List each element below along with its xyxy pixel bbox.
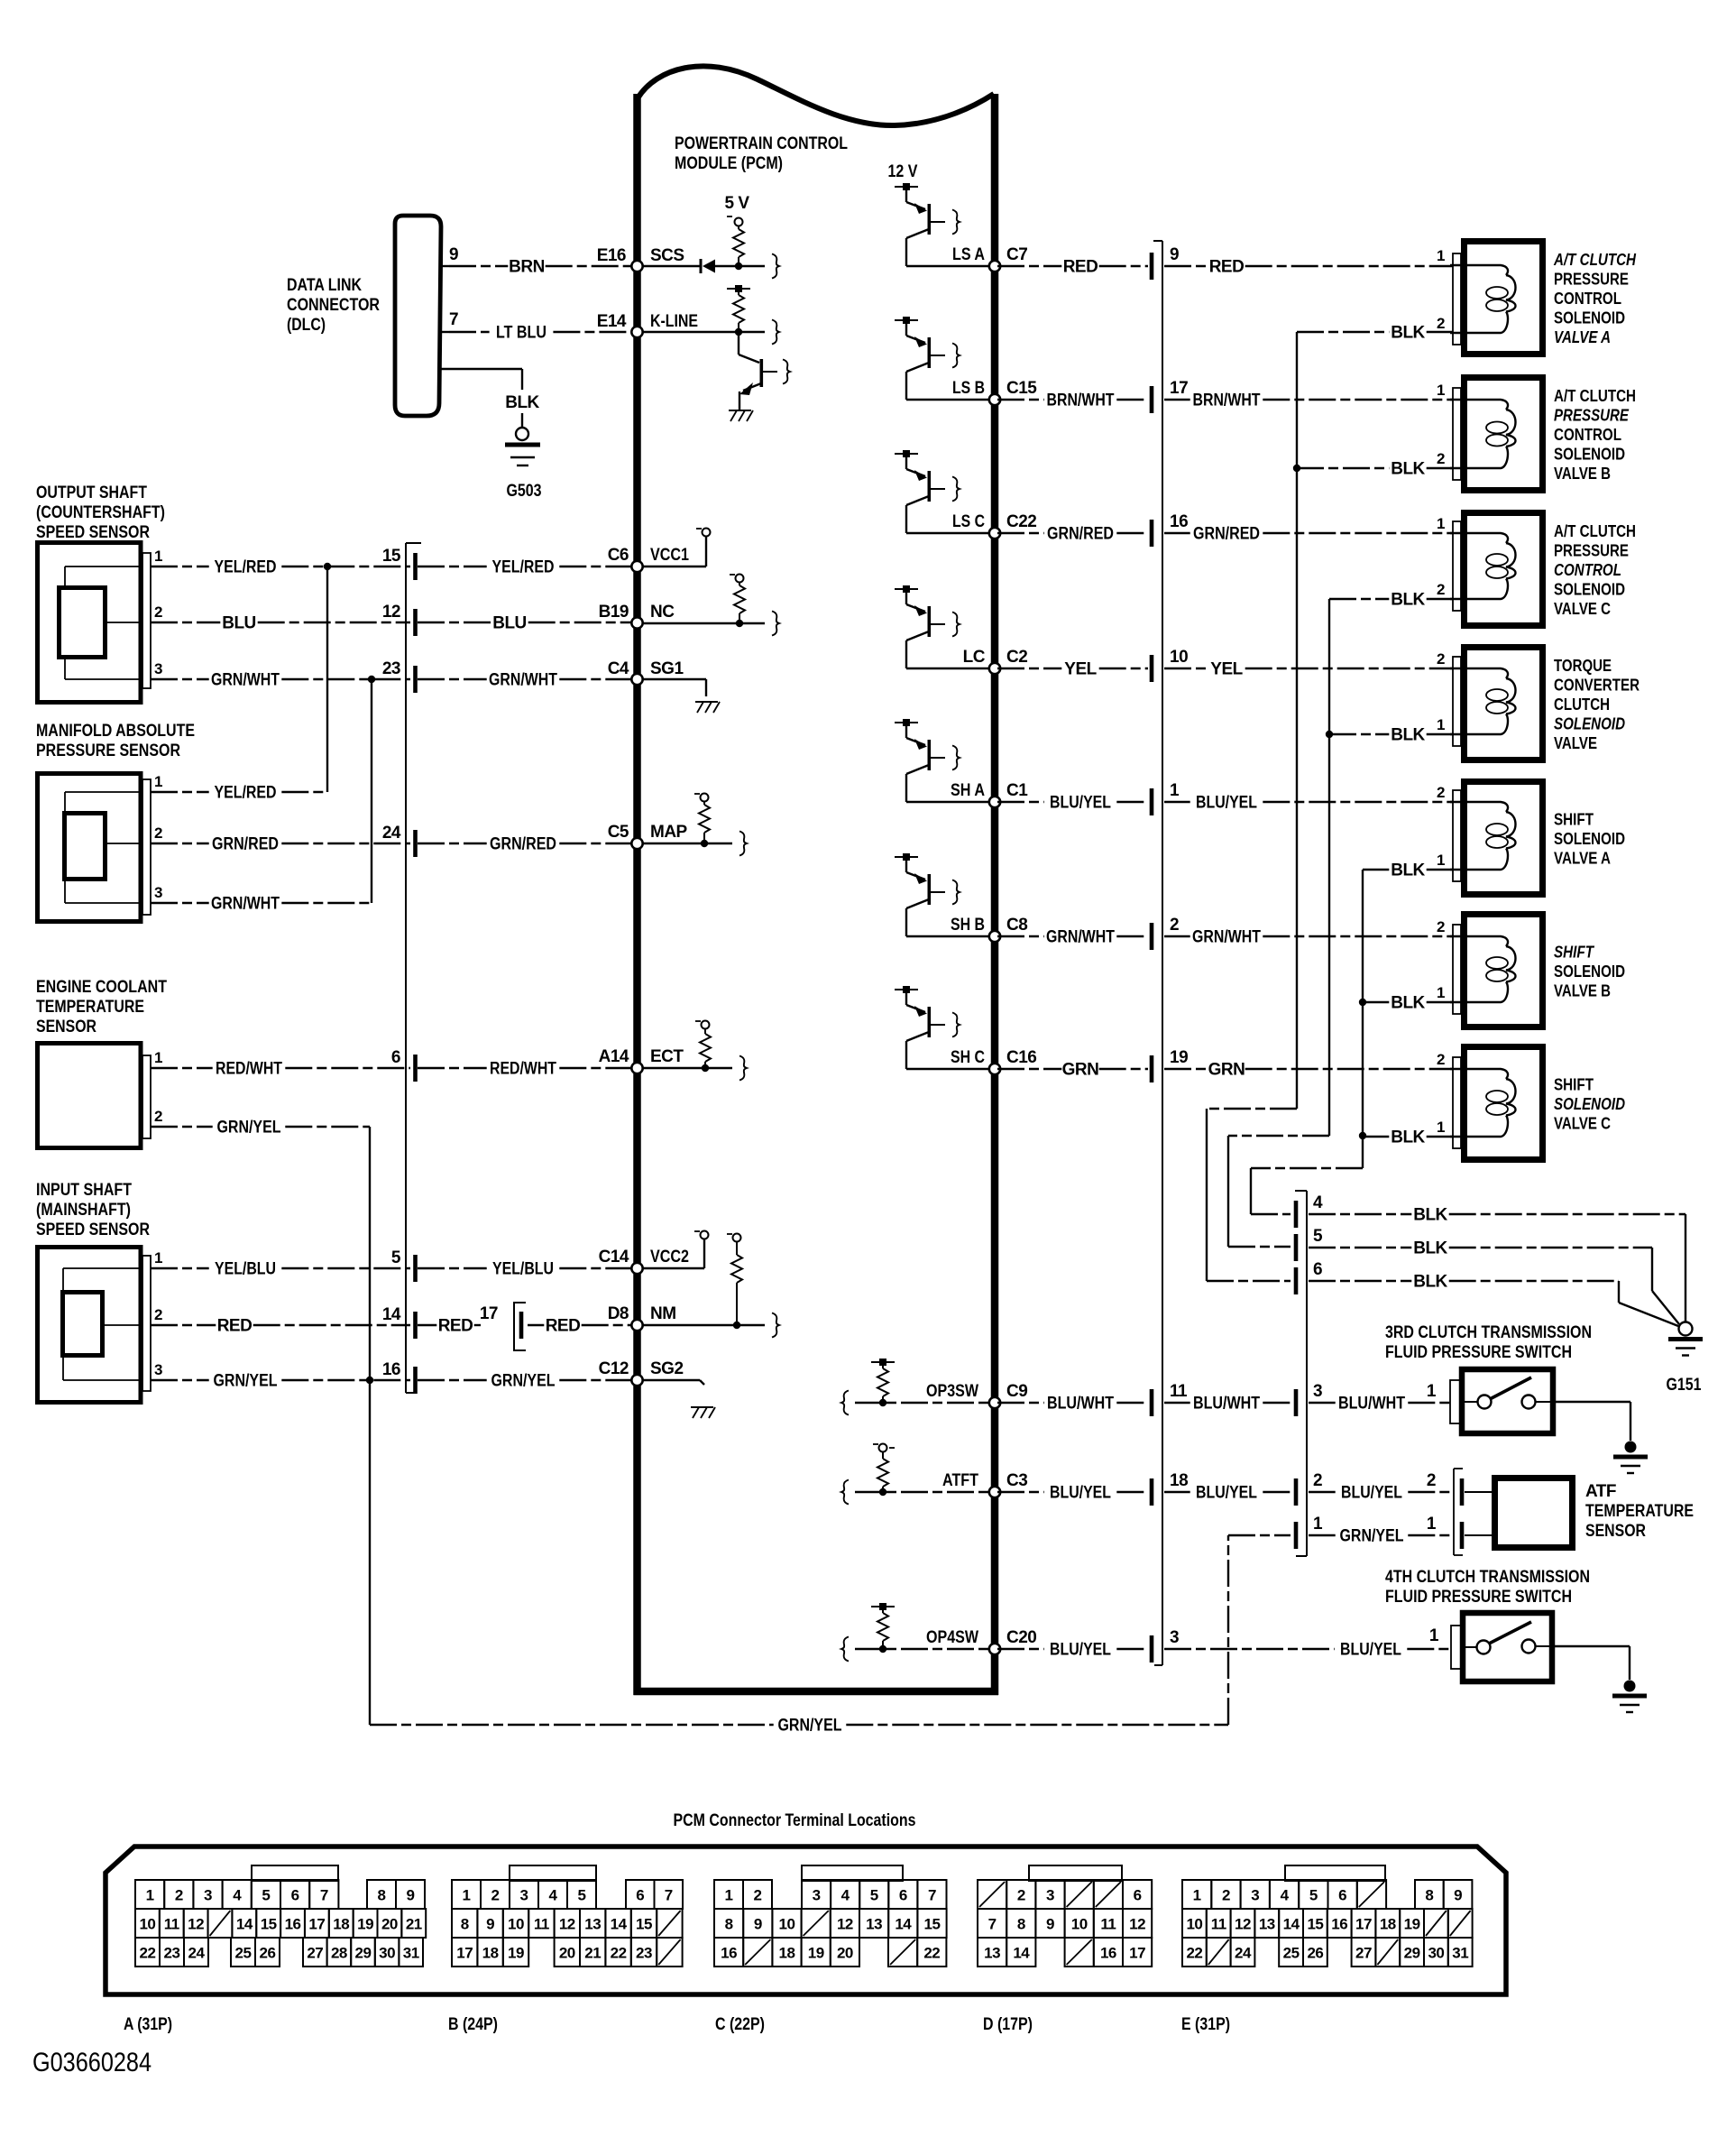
svg-text:BLU/YEL: BLU/YEL — [1050, 1484, 1111, 1503]
svg-text:3: 3 — [1046, 1887, 1054, 1904]
svg-text:LS B: LS B — [952, 379, 985, 398]
svg-text:BLU/WHT: BLU/WHT — [1193, 1395, 1260, 1414]
svg-text:2: 2 — [1437, 650, 1445, 668]
wire BLU/YEL (to ATF sensor pin2) — [1164, 1484, 1292, 1503]
svg-text:CONNECTOR: CONNECTOR — [287, 296, 380, 315]
svg-text:12: 12 — [1235, 1916, 1251, 1933]
in-line connector rail (right harness) — [1153, 241, 1162, 1665]
svg-text:30: 30 — [1428, 1945, 1444, 1962]
wire BLU/WHT (C11 left of rail) — [997, 1395, 1148, 1414]
svg-text:YEL: YEL — [1064, 660, 1097, 679]
connector pin 3 (sub-harness) — [1294, 1382, 1322, 1416]
node LC / C2 — [906, 648, 1027, 674]
wire ECT continuation — [642, 1056, 747, 1081]
switch: 4th clutch transmission fluid pressure switch — [1429, 1613, 1552, 1681]
wire BLK (shift valve C pin1) — [1363, 1128, 1453, 1147]
svg-text:2: 2 — [154, 603, 162, 621]
svg-text:(DLC): (DLC) — [287, 316, 326, 335]
svg-text:9: 9 — [407, 1887, 415, 1904]
svg-text:E (31P): E (31P) — [1181, 2015, 1230, 2034]
transistor Q6 (SH B driver) — [895, 853, 960, 936]
svg-text:G03660284: G03660284 — [32, 2048, 152, 2077]
transistor Q7 (SH C driver) — [895, 986, 960, 1069]
svg-text:PRESSURE: PRESSURE — [1554, 542, 1629, 560]
node C4 / SG1 — [608, 659, 684, 685]
wire LT BLU (DLC pin 7 to PCM E14) — [439, 324, 631, 343]
svg-text:1: 1 — [1437, 852, 1445, 869]
ground (4th switch) — [1612, 1681, 1647, 1713]
svg-text:5: 5 — [870, 1887, 878, 1904]
svg-text:GRN/RED: GRN/RED — [1193, 525, 1260, 544]
svg-text:BLU/WHT: BLU/WHT — [1338, 1395, 1405, 1414]
wire BLU/YEL (rail2 to ATF pin2) — [1309, 1471, 1452, 1503]
solenoid valve C (A/T clutch pressure control solenoid valve C) — [1437, 513, 1542, 626]
svg-text:15: 15 — [1307, 1916, 1323, 1933]
svg-text:2: 2 — [1427, 1471, 1436, 1490]
svg-text:E14: E14 — [597, 312, 627, 331]
svg-text:5 V: 5 V — [724, 194, 749, 213]
svg-text:BLK: BLK — [1391, 994, 1425, 1013]
svg-text:BRN/WHT: BRN/WHT — [1047, 391, 1115, 410]
svg-text:SHIFT: SHIFT — [1554, 1076, 1594, 1094]
switch: 3rd clutch transmission fluid pressure switch — [1450, 1369, 1553, 1433]
sensor: manifold absolute pressure sensor — [38, 774, 152, 922]
ECT sensor pin 2 — [154, 1108, 162, 1125]
svg-text:7: 7 — [665, 1887, 673, 1904]
DLC pin 7 — [449, 310, 458, 329]
connector pin 17 (right rail) — [1150, 379, 1188, 413]
svg-text:VALVE B: VALVE B — [1554, 982, 1611, 1000]
wire GRN/RED (to valve C pin1) — [1164, 525, 1453, 544]
wire YEL/RED (to C6) — [418, 558, 631, 577]
wire GRN/RED (MAP pin2) — [151, 835, 410, 854]
svg-text:3: 3 — [813, 1887, 821, 1904]
svg-text:SCS: SCS — [650, 246, 684, 265]
svg-text:7: 7 — [449, 310, 458, 329]
svg-text:YEL/BLU: YEL/BLU — [215, 1260, 276, 1279]
svg-text:3: 3 — [1170, 1628, 1179, 1647]
svg-text:BLK: BLK — [1391, 861, 1425, 880]
node E16 / SCS — [597, 246, 684, 272]
svg-text:19: 19 — [808, 1945, 824, 1962]
node C14 / VCC2 — [599, 1248, 689, 1274]
output sensor pin 2 — [154, 603, 162, 621]
svg-text:19: 19 — [1170, 1048, 1188, 1067]
svg-text:18: 18 — [482, 1945, 499, 1962]
svg-text:C12: C12 — [599, 1359, 629, 1378]
solenoid valve B (A/T clutch pressure control solenoid valve B) — [1437, 378, 1542, 491]
svg-text:RED: RED — [438, 1317, 473, 1336]
svg-text:16: 16 — [382, 1360, 400, 1379]
wire BLU (output sensor pin2) — [151, 614, 410, 633]
wire YEL (C10 left of rail) — [997, 660, 1148, 679]
svg-text:GRN/WHT: GRN/WHT — [1046, 928, 1115, 947]
svg-text:C5: C5 — [608, 823, 629, 842]
svg-text:5: 5 — [578, 1887, 586, 1904]
svg-text:19: 19 — [1404, 1916, 1420, 1933]
wire YEL/BLU (input pin1) — [151, 1260, 410, 1279]
svg-text:2: 2 — [1437, 918, 1445, 935]
connector block E (31P) — [1181, 1865, 1473, 2034]
svg-text:22: 22 — [1186, 1945, 1202, 1962]
connector pin 15 (left rail) — [382, 547, 418, 580]
DLC pin 9 — [449, 245, 458, 264]
svg-text:BLK: BLK — [1391, 324, 1425, 343]
svg-text:5: 5 — [391, 1248, 401, 1267]
PCM connector terminal outline — [106, 1847, 1506, 1994]
node LS A / C7 — [906, 245, 1027, 272]
svg-text:RED/WHT: RED/WHT — [490, 1060, 556, 1079]
ground (SG2) — [642, 1380, 715, 1418]
connector block B (24P) — [448, 1865, 683, 2034]
svg-text:23: 23 — [164, 1945, 180, 1962]
svg-text:19: 19 — [357, 1916, 373, 1933]
svg-text:POWERTRAIN CONTROL: POWERTRAIN CONTROL — [675, 134, 848, 153]
svg-text:PRESSURE: PRESSURE — [1554, 407, 1630, 425]
node LS B / C15 — [906, 379, 1037, 405]
wire GRN/YEL riser to bottom bus — [369, 1380, 371, 1725]
svg-text:LS A: LS A — [952, 245, 985, 264]
svg-text:ENGINE COOLANT: ENGINE COOLANT — [36, 978, 167, 997]
label ATF TEMPERATURE SENSOR — [1585, 1482, 1694, 1541]
wire BLK bus B (valve C + TCC to pin 5) — [1228, 599, 1333, 1247]
svg-text:14: 14 — [382, 1305, 401, 1324]
svg-text:11: 11 — [534, 1916, 549, 1933]
svg-text:4TH CLUTCH TRANSMISSION: 4TH CLUTCH TRANSMISSION — [1385, 1568, 1590, 1587]
svg-text:GRN/YEL: GRN/YEL — [214, 1372, 278, 1391]
svg-text:28: 28 — [331, 1945, 347, 1962]
svg-text:6: 6 — [1313, 1260, 1322, 1279]
connector pin 14 (left rail) — [382, 1305, 418, 1339]
svg-text:5: 5 — [1313, 1227, 1323, 1246]
svg-text:VCC1: VCC1 — [650, 546, 689, 565]
label torque converter clutch solenoid valve — [1554, 657, 1640, 752]
svg-text:SOLENOID: SOLENOID — [1554, 581, 1625, 599]
wire BLK (shift valve A pin1) — [1363, 861, 1453, 880]
svg-text:BLK: BLK — [1413, 1206, 1447, 1225]
label 4TH CLUTCH TRANSMISSION FLUID PRESSURE SWITCH — [1385, 1568, 1590, 1607]
svg-text:2: 2 — [1437, 315, 1445, 332]
svg-text:GRN/RED: GRN/RED — [212, 835, 279, 854]
wire GRN/WHT (to C4) — [418, 671, 631, 690]
svg-text:ATFT: ATFT — [942, 1471, 978, 1490]
wire BLU (to B19) — [418, 614, 631, 633]
svg-text:3: 3 — [154, 660, 162, 677]
connector pin 23 (left rail) — [382, 659, 418, 693]
in-line connector rail (left harness) — [406, 543, 421, 1393]
svg-text:8: 8 — [725, 1916, 733, 1933]
connector pin 2 (right rail) — [1150, 916, 1179, 950]
wire GRN/WHT (to shift valve B pin2) — [1164, 928, 1453, 947]
svg-text:1: 1 — [146, 1887, 154, 1904]
in-line connector rail (transmission sub-harness) — [1295, 1191, 1307, 1556]
label shift solenoid valve C — [1554, 1076, 1625, 1133]
ground (SG1) — [642, 679, 720, 713]
wire BLU/WHT (to 3rd clutch switch) — [1164, 1395, 1292, 1414]
node E14 / K-LINE — [597, 312, 698, 337]
svg-text:CLUTCH: CLUTCH — [1554, 695, 1610, 714]
svg-text:BLK: BLK — [1391, 726, 1425, 745]
svg-text:GRN/RED: GRN/RED — [1047, 525, 1114, 544]
svg-text:LS C: LS C — [952, 512, 985, 531]
svg-text:FLUID PRESSURE SWITCH: FLUID PRESSURE SWITCH — [1385, 1343, 1572, 1362]
input sensor pin 2 — [154, 1306, 162, 1323]
svg-text:SPEED SENSOR: SPEED SENSOR — [36, 523, 150, 542]
svg-text:13: 13 — [584, 1916, 601, 1933]
svg-text:15: 15 — [261, 1916, 277, 1933]
svg-text:D8: D8 — [608, 1304, 629, 1323]
svg-text:31: 31 — [403, 1945, 419, 1962]
svg-text:20: 20 — [837, 1945, 853, 1962]
svg-text:BLK: BLK — [1391, 1128, 1425, 1147]
svg-text:1: 1 — [1313, 1515, 1323, 1534]
wire BLK (shift valve B pin1) — [1363, 994, 1453, 1013]
svg-text:24: 24 — [382, 824, 401, 843]
svg-text:2: 2 — [1437, 1051, 1445, 1068]
svg-text:C14: C14 — [599, 1248, 629, 1267]
svg-text:C6: C6 — [608, 546, 629, 565]
svg-text:MODULE (PCM): MODULE (PCM) — [675, 154, 783, 173]
svg-text:C22: C22 — [1006, 512, 1036, 531]
pull-up resistor (NC) — [730, 575, 745, 628]
connector pin 3 (right rail) — [1150, 1628, 1179, 1663]
pull-up resistor (MAP) — [694, 794, 710, 848]
node B19 / NC — [599, 603, 675, 629]
svg-text:13: 13 — [984, 1945, 1000, 1962]
input resistor (ATFT) — [873, 1444, 895, 1497]
svg-text:D (17P): D (17P) — [983, 2015, 1033, 2034]
MAP sensor pin 1 — [154, 773, 162, 790]
node C5 / MAP — [608, 823, 688, 849]
svg-text:22: 22 — [923, 1945, 940, 1962]
svg-text:14: 14 — [895, 1916, 912, 1933]
svg-text:11: 11 — [1170, 1382, 1188, 1401]
connector block C (22P) — [714, 1865, 947, 2034]
svg-text:YEL/RED: YEL/RED — [215, 558, 277, 577]
svg-text:10: 10 — [1186, 1916, 1202, 1933]
wire BRN/WHT (C17 left of rail) — [997, 391, 1148, 410]
sensor: engine coolant temperature sensor — [38, 1044, 152, 1148]
svg-text:21: 21 — [406, 1916, 422, 1933]
svg-text:5: 5 — [262, 1887, 270, 1904]
solenoid shift solenoid valve A — [1437, 782, 1542, 895]
wire BRN/WHT (to valve B pin1) — [1164, 391, 1453, 410]
svg-text:12: 12 — [188, 1916, 204, 1933]
wire riser YEL/RED (MAP pin1 junction) — [326, 566, 328, 792]
node LS C / C22 — [906, 512, 1036, 539]
node SH B / C8 — [906, 916, 1027, 942]
VCC1 5V terminal — [642, 529, 711, 567]
svg-text:YEL/BLU: YEL/BLU — [492, 1260, 554, 1279]
wire GRN (to shift valve C pin2) — [1164, 1061, 1453, 1080]
svg-text:12: 12 — [1129, 1916, 1145, 1933]
input sensor pin 1 — [154, 1249, 162, 1267]
svg-text:26: 26 — [260, 1945, 276, 1962]
svg-text:10: 10 — [139, 1916, 155, 1933]
svg-text:OUTPUT SHAFT: OUTPUT SHAFT — [36, 484, 147, 502]
svg-text:GRN: GRN — [1208, 1061, 1245, 1080]
svg-text:PCM Connector Terminal Locatio: PCM Connector Terminal Locations — [674, 1811, 916, 1830]
output sensor pin 3 — [154, 660, 162, 677]
svg-text:C9: C9 — [1006, 1382, 1027, 1401]
svg-text:10: 10 — [1170, 648, 1188, 667]
svg-text:G151: G151 — [1667, 1376, 1702, 1395]
wire BLK (pin 5 to G151) — [1309, 1239, 1679, 1325]
svg-text:BRN: BRN — [509, 258, 545, 277]
svg-text:14: 14 — [236, 1916, 253, 1933]
svg-text:2: 2 — [154, 1108, 162, 1125]
svg-text:A14: A14 — [599, 1047, 629, 1066]
label PCM Connector Terminal Locations — [674, 1811, 916, 1830]
svg-text:SH B: SH B — [951, 916, 985, 935]
svg-text:18: 18 — [779, 1945, 795, 1962]
solenoid shift solenoid valve C — [1437, 1047, 1542, 1160]
svg-text:5: 5 — [1309, 1887, 1318, 1904]
svg-text:1: 1 — [154, 1049, 162, 1066]
svg-text:12: 12 — [559, 1916, 575, 1933]
svg-text:2: 2 — [754, 1887, 762, 1904]
pull-up resistor (ECT) — [695, 1021, 711, 1073]
node OP4SW / C20 — [841, 1628, 1036, 1662]
svg-text:17: 17 — [480, 1304, 498, 1323]
svg-text:8: 8 — [1017, 1916, 1025, 1933]
svg-text:SH A: SH A — [951, 781, 985, 800]
svg-text:18: 18 — [333, 1916, 349, 1933]
svg-text:1: 1 — [1437, 984, 1445, 1001]
svg-text:BLK: BLK — [1391, 460, 1425, 479]
svg-text:VCC2: VCC2 — [650, 1248, 689, 1267]
ground G151 — [1667, 1322, 1704, 1395]
svg-text:8: 8 — [1425, 1887, 1433, 1904]
connector pin 4 (sub-harness) — [1294, 1193, 1323, 1228]
svg-text:23: 23 — [382, 659, 400, 678]
svg-text:2: 2 — [1170, 916, 1179, 935]
wire GRN/RED (C16 left of rail) — [997, 525, 1148, 544]
svg-text:BLU: BLU — [492, 614, 527, 633]
wire BLU/YEL (C3 left of rail) — [997, 1641, 1148, 1660]
svg-text:BLU: BLU — [222, 614, 256, 633]
wire riser GRN/WHT (MAP pin3 junction) — [371, 679, 372, 903]
svg-text:C8: C8 — [1006, 916, 1027, 935]
svg-text:4: 4 — [549, 1887, 558, 1904]
svg-text:21: 21 — [584, 1945, 601, 1962]
wire GRN/WHT (C2 left of rail) — [997, 928, 1148, 947]
wire BLK (pin 6 to G151) — [1309, 1273, 1678, 1327]
svg-text:BLU/YEL: BLU/YEL — [1341, 1484, 1402, 1503]
wire NM continuation — [642, 1313, 779, 1338]
svg-text:1: 1 — [1437, 515, 1445, 532]
svg-text:14: 14 — [611, 1916, 628, 1933]
svg-text:25: 25 — [1283, 1945, 1300, 1962]
transistor Q1 (LS A driver) — [895, 183, 960, 266]
svg-text:FLUID PRESSURE SWITCH: FLUID PRESSURE SWITCH — [1385, 1588, 1572, 1607]
svg-text:13: 13 — [866, 1916, 882, 1933]
svg-text:3RD CLUTCH TRANSMISSION: 3RD CLUTCH TRANSMISSION — [1385, 1323, 1592, 1342]
svg-text:SOLENOID: SOLENOID — [1554, 309, 1625, 327]
svg-text:TEMPERATURE: TEMPERATURE — [36, 998, 144, 1017]
wire YEL/RED (MAP pin1) — [151, 784, 327, 803]
svg-text:VALVE A: VALVE A — [1554, 328, 1611, 346]
svg-text:1: 1 — [1429, 1626, 1439, 1645]
svg-text:16: 16 — [1100, 1945, 1116, 1962]
VCC2 5V terminal — [642, 1231, 709, 1269]
node C12 / SG2 — [599, 1359, 684, 1386]
svg-text:1: 1 — [154, 548, 162, 565]
svg-text:18: 18 — [1170, 1471, 1188, 1490]
svg-text:9: 9 — [1170, 245, 1179, 264]
svg-text:C16: C16 — [1006, 1048, 1036, 1067]
wire GRN/YEL (ECT pin2) — [151, 1119, 370, 1381]
wire SCS continuation — [739, 254, 779, 279]
svg-text:31: 31 — [1452, 1945, 1468, 1962]
svg-text:GRN/WHT: GRN/WHT — [211, 671, 280, 690]
svg-text:SPEED SENSOR: SPEED SENSOR — [36, 1220, 150, 1239]
svg-text:BLU/YEL: BLU/YEL — [1196, 794, 1257, 813]
connector block D (17P) — [978, 1865, 1152, 2034]
svg-text:VALVE C: VALVE C — [1554, 1115, 1611, 1133]
svg-text:LC: LC — [963, 648, 986, 667]
svg-text:16: 16 — [285, 1916, 301, 1933]
ground G503 — [505, 428, 542, 501]
svg-text:17: 17 — [456, 1945, 473, 1962]
svg-text:VALVE B: VALVE B — [1554, 465, 1611, 483]
svg-text:30: 30 — [379, 1945, 395, 1962]
svg-text:3: 3 — [1313, 1382, 1322, 1401]
svg-text:18: 18 — [1380, 1916, 1396, 1933]
svg-text:27: 27 — [307, 1945, 323, 1962]
svg-text:PRESSURE: PRESSURE — [1554, 271, 1629, 289]
label valve A (A/T clutch pressure control solenoid valve A) — [1553, 251, 1637, 346]
svg-text:8: 8 — [461, 1916, 469, 1933]
svg-text:9: 9 — [754, 1916, 762, 1933]
transistor Q8 (K-LINE driver) — [739, 332, 790, 410]
svg-text:RED: RED — [1209, 258, 1245, 277]
transistor Q2 (LS B driver) — [895, 317, 960, 400]
wire to ground (3rd switch) — [1556, 1402, 1630, 1441]
svg-text:8: 8 — [378, 1887, 386, 1904]
svg-text:SENSOR: SENSOR — [36, 1018, 96, 1036]
wire BLU/WHT (rail2 to 3rd switch pin1) — [1309, 1382, 1450, 1414]
connector pin 2 (sub-harness) — [1294, 1471, 1322, 1506]
svg-text:CONTROL: CONTROL — [1554, 561, 1621, 579]
svg-text:YEL: YEL — [1210, 660, 1243, 679]
pull-up resistor (K-LINE) — [727, 285, 750, 332]
connector pin 5 (left rail) — [391, 1248, 418, 1282]
svg-text:22: 22 — [611, 1945, 627, 1962]
svg-text:A/T CLUTCH: A/T CLUTCH — [1554, 387, 1636, 405]
connector pin 18 (right rail) — [1150, 1471, 1188, 1506]
svg-text:26: 26 — [1307, 1945, 1323, 1962]
svg-text:C1: C1 — [1006, 781, 1028, 800]
svg-text:GRN/RED: GRN/RED — [490, 835, 556, 854]
svg-text:1: 1 — [1437, 247, 1445, 264]
svg-text:BLK: BLK — [1413, 1273, 1447, 1292]
svg-text:2: 2 — [1313, 1471, 1322, 1490]
svg-text:17: 17 — [1355, 1916, 1372, 1933]
wire RED (input pin2) — [151, 1317, 410, 1336]
svg-text:9: 9 — [1046, 1916, 1054, 1933]
svg-text:6: 6 — [636, 1887, 644, 1904]
wire BLK (valve C pin2) — [1329, 591, 1453, 610]
svg-text:K-LINE: K-LINE — [650, 312, 698, 331]
svg-text:1: 1 — [154, 1249, 162, 1267]
svg-text:24: 24 — [188, 1945, 206, 1962]
svg-text:CONTROL: CONTROL — [1554, 290, 1621, 308]
svg-text:16: 16 — [1170, 512, 1188, 531]
solenoid valve A (A/T clutch pressure control solenoid valve A) — [1437, 242, 1542, 355]
svg-text:16: 16 — [721, 1945, 737, 1962]
svg-text:GRN/YEL: GRN/YEL — [491, 1372, 556, 1391]
